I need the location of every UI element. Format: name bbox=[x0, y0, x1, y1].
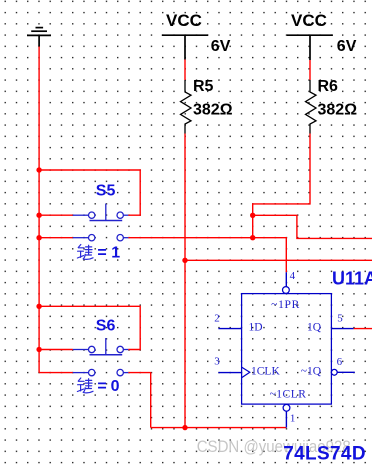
svg-text:R6: R6 bbox=[318, 78, 339, 95]
node junction bus/S6 loop bbox=[36, 304, 41, 309]
node junction bus/S6 row1 bbox=[36, 347, 41, 352]
node junction R6 branch upper bbox=[250, 213, 255, 218]
switch S6 bbox=[73, 338, 129, 376]
svg-text:2: 2 bbox=[214, 312, 220, 324]
op-amp/chip U11A body bbox=[242, 294, 332, 405]
pin 6 bubble ~1Q bbox=[331, 369, 337, 375]
node junction R5/long wire bbox=[182, 258, 187, 263]
wire S6 row2 left (bus corner) bbox=[39, 372, 73, 374]
node junction bus/S5 row2 bbox=[36, 235, 41, 240]
svg-text:74LS74D: 74LS74D bbox=[283, 444, 366, 465]
svg-text:1: 1 bbox=[111, 245, 120, 262]
svg-text:3: 3 bbox=[214, 355, 220, 367]
label key = 1 (CJK glyph drawn) bbox=[77, 245, 93, 260]
svg-text:=: = bbox=[97, 378, 106, 395]
wire S5 row1 left bbox=[39, 214, 73, 216]
svg-text:6: 6 bbox=[337, 356, 343, 368]
svg-text:S6: S6 bbox=[96, 317, 116, 334]
wire S6 top loop bbox=[39, 306, 140, 349]
svg-text:VCC: VCC bbox=[291, 11, 327, 30]
svg-text:S5: S5 bbox=[96, 182, 116, 199]
pin 3 wire 1CLK bbox=[218, 372, 241, 374]
wire VCC2 to R6 bbox=[309, 60, 311, 80]
wire long horizontal from R5 net to right edge bbox=[185, 259, 372, 261]
node junction R6/S5 row bbox=[250, 235, 255, 240]
wire S5 row2 right to pin4 bbox=[128, 238, 286, 273]
label key = 0 (CJK glyph drawn) bbox=[77, 378, 93, 393]
switch S5 bbox=[73, 204, 129, 241]
wire R6 down and jog left bbox=[253, 134, 310, 238]
pin 4 stub bbox=[285, 272, 287, 287]
svg-text:R5: R5 bbox=[193, 78, 214, 95]
svg-text:VCC: VCC bbox=[166, 11, 202, 30]
wire: ground vertical bus x=39 bbox=[38, 47, 40, 373]
wire S6 row2 right down to bottom rail bbox=[128, 373, 150, 428]
svg-text:1Q: 1Q bbox=[307, 321, 322, 333]
svg-text:~1PR: ~1PR bbox=[271, 299, 300, 311]
pin 5 wire 1Q blue part bbox=[331, 328, 353, 330]
svg-text:0: 0 bbox=[111, 378, 120, 395]
pin 4 bubble ~1PR bbox=[283, 287, 290, 294]
wire bottom rail bbox=[151, 427, 287, 429]
svg-text:382Ω: 382Ω bbox=[193, 102, 233, 119]
svg-text:~1Q: ~1Q bbox=[301, 365, 322, 377]
svg-text:U11A: U11A bbox=[332, 269, 372, 289]
wire R5 down to bottom rail bbox=[184, 134, 186, 428]
svg-text:=: = bbox=[97, 245, 106, 262]
wire S5 row2 left bbox=[39, 237, 73, 239]
power VCC1 bbox=[162, 35, 208, 59]
wire S5 top loop bbox=[39, 170, 140, 215]
wire S6 row1 left bbox=[39, 349, 73, 351]
svg-text:6V: 6V bbox=[337, 38, 357, 55]
svg-text:6V: 6V bbox=[211, 38, 231, 55]
pin 2 wire 1D bbox=[218, 328, 241, 330]
svg-text:1D: 1D bbox=[249, 321, 263, 333]
power VCC2 bbox=[287, 35, 333, 60]
pin 1 bubble ~1CLR bbox=[283, 404, 290, 411]
resistor R6 bbox=[306, 80, 317, 134]
clock wedge 1CLK bbox=[242, 367, 250, 378]
svg-text:1CLK: 1CLK bbox=[251, 365, 280, 377]
pin 5 wire red continuation bbox=[354, 328, 372, 330]
pin 6 wire ~1Q stub bbox=[337, 371, 355, 373]
ground bbox=[27, 28, 51, 47]
svg-text:5: 5 bbox=[337, 312, 343, 324]
wire branch to right edge upper bbox=[253, 215, 372, 238]
svg-text:~1CLR: ~1CLR bbox=[270, 389, 307, 401]
node junction bus/S5 loop bbox=[36, 167, 41, 172]
svg-text:1: 1 bbox=[290, 413, 296, 425]
svg-text:4: 4 bbox=[290, 270, 296, 282]
wire bottom rail up to pin1 bbox=[285, 411, 287, 428]
wire VCC1 to R5 bbox=[184, 60, 186, 81]
svg-text:382Ω: 382Ω bbox=[318, 102, 358, 119]
node junction R5 wire/bottom rail bbox=[182, 425, 187, 430]
node junction bus/S5 row1 bbox=[36, 213, 41, 218]
resistor R5 bbox=[181, 80, 192, 134]
